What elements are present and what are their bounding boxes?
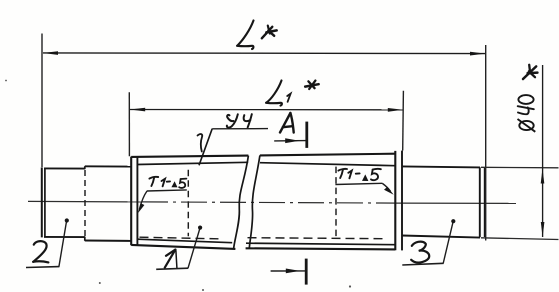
centerline (shaft axis) — [28, 201, 516, 203]
step between left journal and seat — [84, 166, 86, 241]
break line right — [249, 155, 260, 248]
hidden vertical line right half of tube — [335, 167, 337, 238]
asterisk of O40 — [523, 65, 537, 79]
right journal end face double line — [480, 167, 485, 237]
section marker bottom arrow — [271, 269, 305, 274]
break line left — [234, 156, 249, 249]
right journal (part 3) outline — [402, 166, 480, 237]
callout 2 — [33, 241, 48, 262]
weld label T1-D5 right underline and leader arrow — [335, 183, 393, 194]
dimension line L* — [43, 51, 486, 55]
label U4 — [227, 114, 252, 127]
weld label T1-D5 left — [149, 177, 186, 188]
left seat section outline — [85, 166, 131, 241]
extension line O40 bottom — [481, 238, 559, 240]
callout 1 — [165, 250, 177, 268]
left journal (part 2) end face double line — [42, 167, 45, 237]
extension line O40 top — [481, 166, 559, 169]
tube inner bottom line — [137, 239, 395, 245]
weld label T1-D5 left underline and leader arrow — [138, 190, 187, 213]
extension line L* right — [485, 45, 487, 241]
hidden horizontal line left half of tube — [140, 237, 223, 239]
dimension text O40 rotated — [518, 95, 536, 132]
hidden line thread runout on left journal — [84, 170, 86, 236]
callout 3 — [411, 242, 429, 263]
callout 1 underline and leader — [156, 226, 202, 270]
tube part 1 right collar flange — [395, 151, 402, 251]
extension line L1 right — [402, 91, 405, 151]
callout 3 underline and leader — [402, 219, 455, 265]
hidden vertical line left half of tube — [187, 170, 189, 236]
surface finish radical diagonal — [199, 129, 212, 166]
section marker bottom bar — [305, 259, 308, 285]
dimension text L1 — [266, 81, 291, 106]
surface finish mark tick — [198, 134, 203, 152]
left journal outline — [44, 168, 85, 237]
hidden horizontal line right half of tube — [248, 238, 386, 239]
surface finish radical bar — [212, 128, 268, 130]
asterisk of L* — [262, 26, 277, 39]
callout 2 underline and leader — [26, 218, 69, 267]
asterisk of L1 — [305, 81, 318, 89]
tube part 1 left collar flange — [131, 157, 137, 246]
weld label T1-D5 right — [338, 169, 380, 180]
section marker top bar — [305, 122, 308, 148]
dimension line L1 — [130, 108, 403, 112]
paper specks — [5, 80, 351, 291]
section marker top arrow — [274, 138, 305, 143]
tube outer bottom edge — [131, 245, 395, 250]
dimension text L* — [237, 21, 254, 50]
weld label T1-D5 right triangle — [362, 174, 368, 181]
extension line L1 left — [128, 92, 130, 156]
tube outer top edge — [131, 154, 395, 157]
section letter A — [280, 113, 294, 133]
dimension line O40 vertical — [541, 65, 545, 237]
extension line L* left — [41, 34, 43, 168]
weld label T1-D5 left triangle — [171, 181, 177, 187]
tube inner top line — [137, 162, 395, 165]
